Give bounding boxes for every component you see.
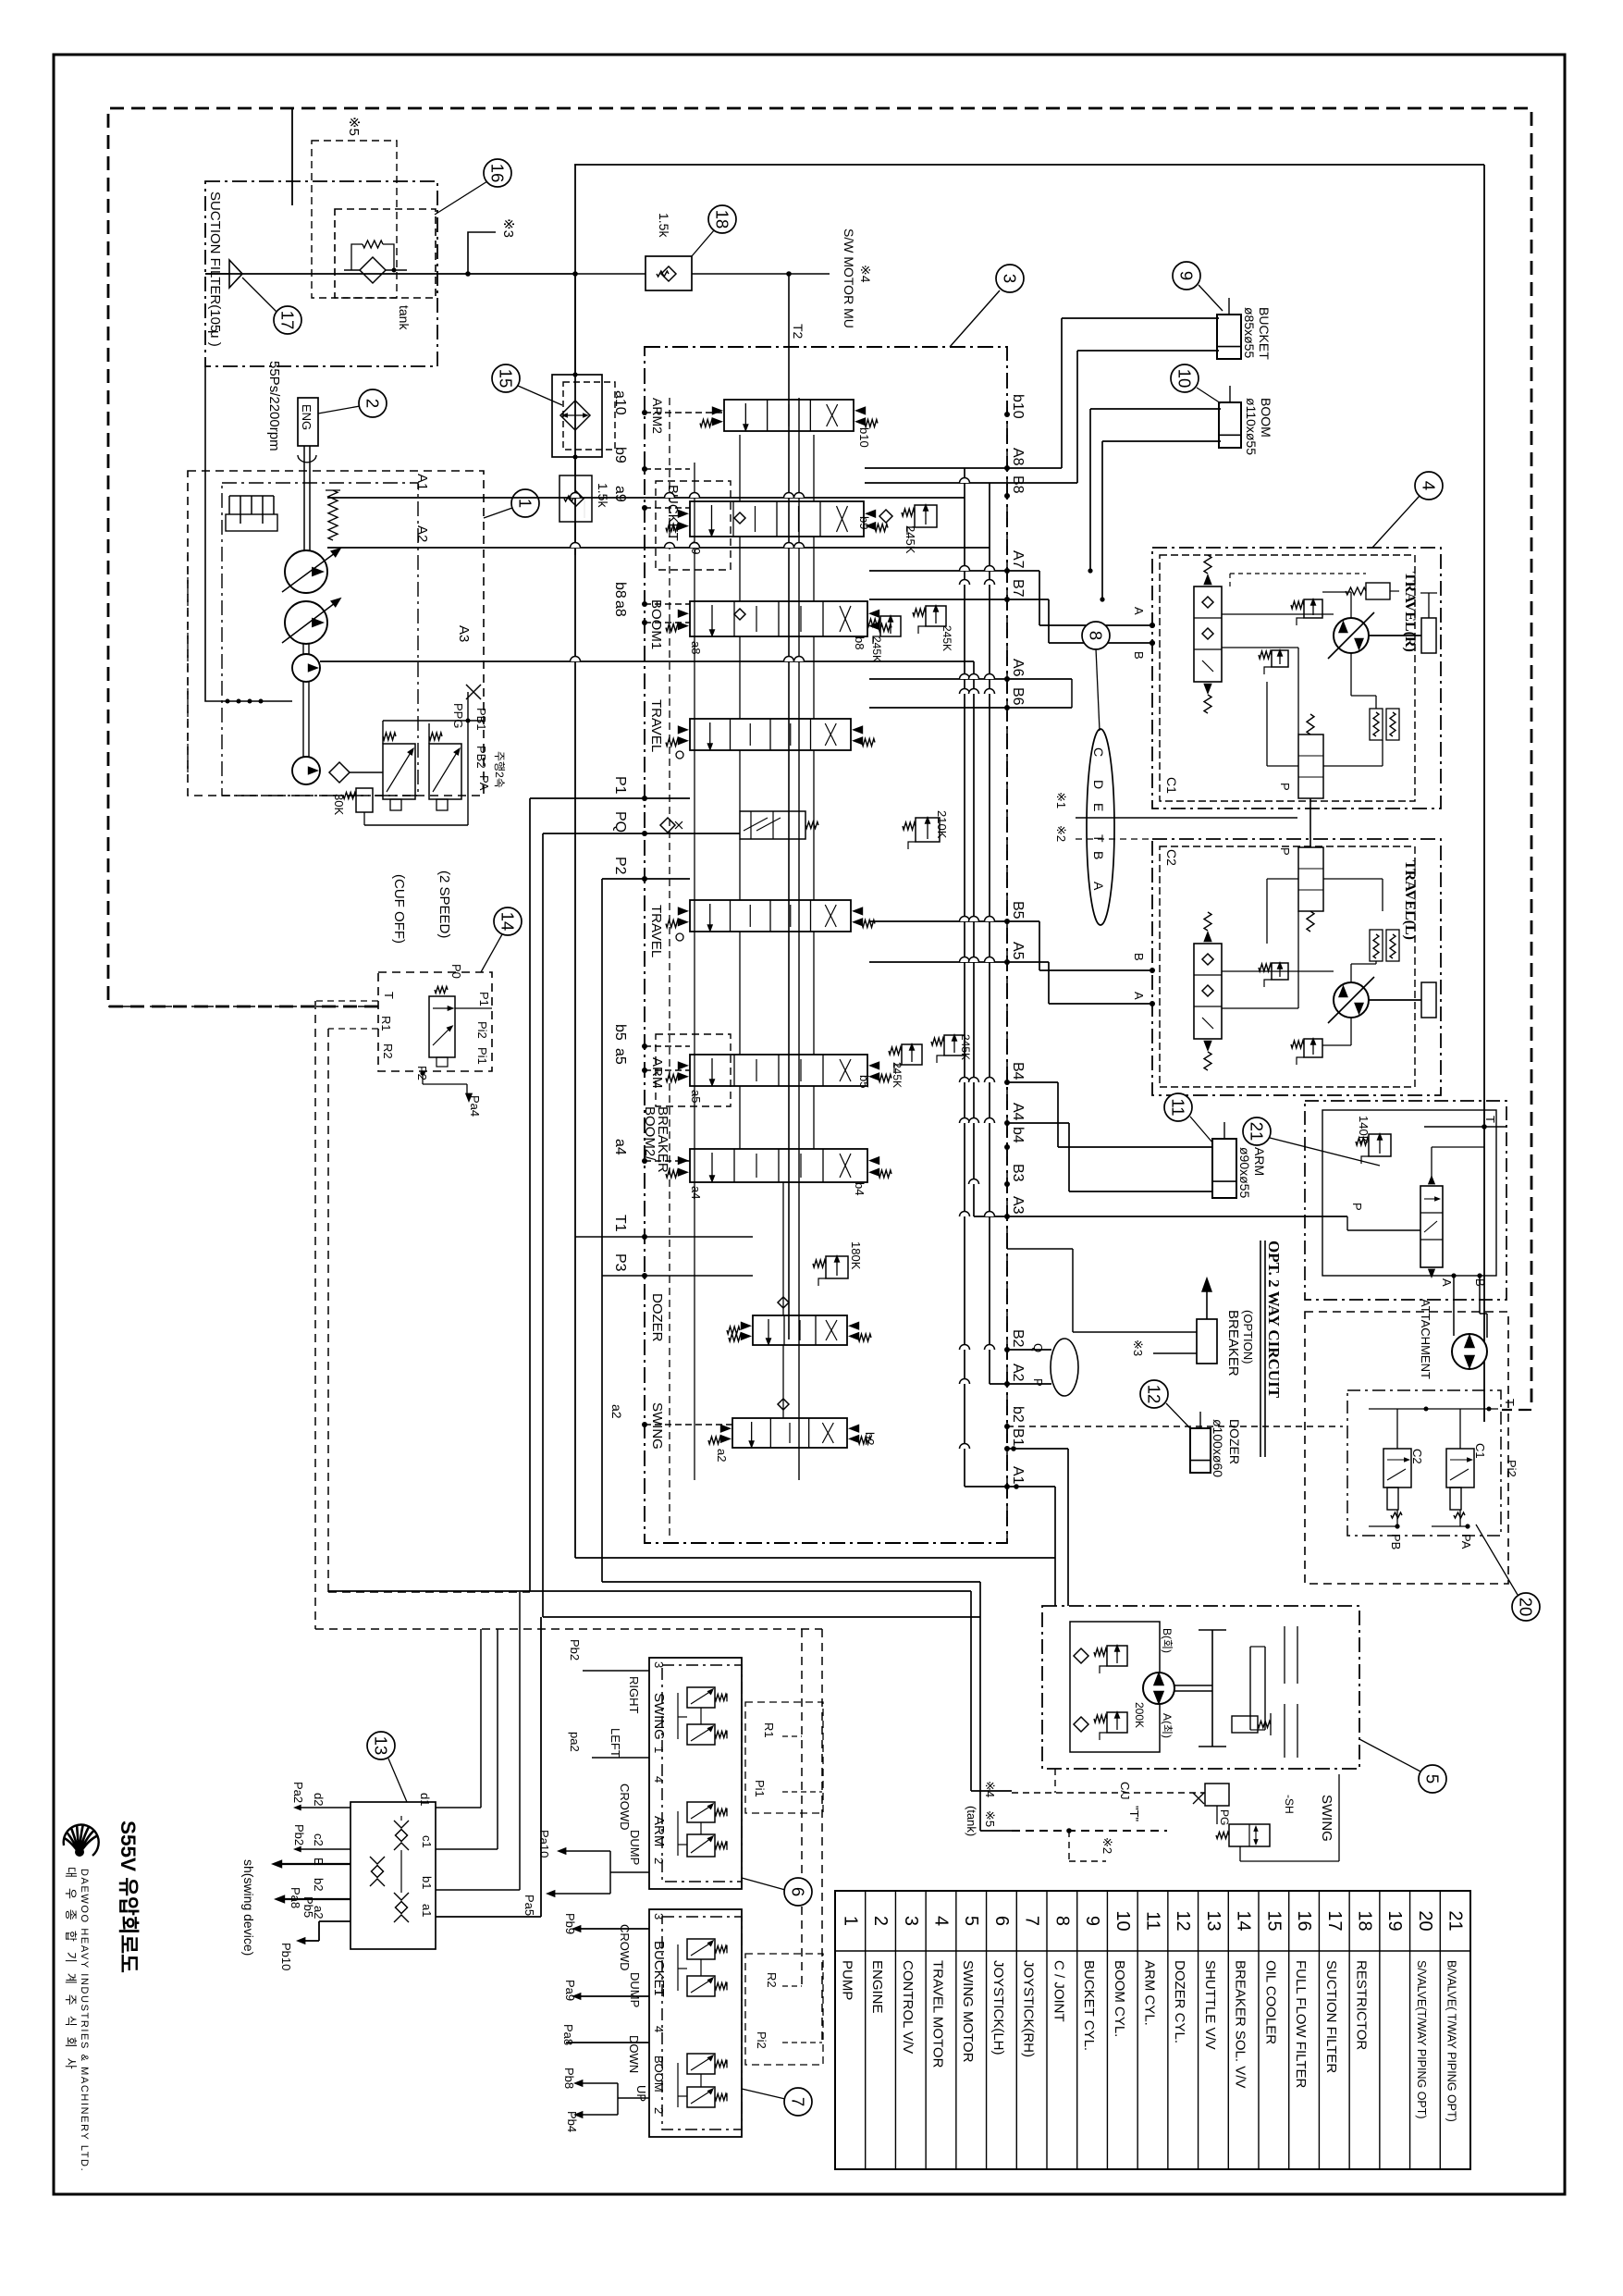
bus vertical 1053 bbox=[973, 661, 975, 1216]
circle 4 bbox=[1415, 472, 1443, 500]
svg-text:DOZER: DOZER bbox=[1227, 1419, 1242, 1464]
Pb8 Pb4 tee bbox=[618, 2097, 649, 2099]
svg-text:B3: B3 bbox=[1010, 1164, 1026, 1182]
travel L motor bbox=[1334, 982, 1369, 1018]
valve spool BUCKET bbox=[656, 481, 731, 570]
valve spool SWING bbox=[732, 1418, 847, 1448]
svg-text:180K: 180K bbox=[849, 1241, 863, 1270]
svg-text:B1: B1 bbox=[1010, 1428, 1026, 1447]
svg-text:A3: A3 bbox=[1010, 1196, 1026, 1215]
travel R internal wires bbox=[1222, 613, 1334, 615]
30K relief valve bbox=[356, 788, 373, 812]
svg-text:TRAVEL MOTOR: TRAVEL MOTOR bbox=[930, 1960, 946, 2068]
svg-text:A3: A3 bbox=[456, 625, 472, 642]
svg-text:OIL COOLER: OIL COOLER bbox=[1262, 1960, 1278, 2044]
svg-text:LEFT: LEFT bbox=[609, 1728, 622, 1758]
svg-text:※4: ※4 bbox=[858, 265, 873, 283]
svg-text:b4: b4 bbox=[853, 1182, 867, 1195]
svg-text:A4: A4 bbox=[1010, 1103, 1026, 1121]
svg-text:C1: C1 bbox=[1473, 1443, 1487, 1459]
svg-text:A1: A1 bbox=[414, 474, 430, 490]
bottom horizontal runs bbox=[575, 1557, 1055, 1559]
c-joint block 13 box bbox=[350, 1802, 436, 1949]
svg-text:DOZER CYL.: DOZER CYL. bbox=[1172, 1960, 1187, 2043]
attachment motor bbox=[1452, 1334, 1487, 1369]
wire A1 bbox=[327, 497, 965, 499]
svg-text:B5: B5 bbox=[1010, 901, 1026, 920]
travel L inner dashed box C2 bbox=[1160, 846, 1415, 1087]
wire A3 bbox=[320, 660, 974, 662]
svg-text:Pb2: Pb2 bbox=[292, 1824, 306, 1845]
travel L brake bbox=[1421, 982, 1436, 1018]
svg-text:-SH: -SH bbox=[1283, 1795, 1296, 1814]
svg-text:C2: C2 bbox=[1164, 849, 1179, 866]
svg-text:TRAVEL(R): TRAVEL(R) bbox=[1402, 572, 1418, 652]
svg-text:※2: ※2 bbox=[1054, 825, 1068, 842]
svg-text:BOOM: BOOM bbox=[652, 2055, 666, 2092]
1.5k check restrictor bbox=[559, 475, 592, 522]
svg-text:(2 SPEED): (2 SPEED) bbox=[436, 870, 452, 938]
arm cylinder bbox=[1212, 1139, 1236, 1198]
svg-text:30K: 30K bbox=[332, 794, 346, 815]
oil cooler / filter 15 box bbox=[552, 375, 602, 457]
svg-text:주행2속: 주행2속 bbox=[493, 751, 507, 788]
svg-text:16: 16 bbox=[488, 164, 508, 183]
jr R2 Pi2 bbox=[745, 1954, 823, 2065]
svg-text:12: 12 bbox=[1173, 1910, 1193, 1931]
svg-text:※2: ※2 bbox=[1100, 1837, 1114, 1854]
svg-text:RIGHT: RIGHT bbox=[627, 1676, 641, 1714]
arm 245K reliefs bbox=[902, 1044, 922, 1065]
circle 15 bbox=[492, 364, 520, 392]
svg-text:UP: UP bbox=[634, 2085, 648, 2102]
svg-text:11: 11 bbox=[1169, 1098, 1188, 1116]
svg-text:R2: R2 bbox=[765, 1972, 779, 1988]
svg-text:ENG: ENG bbox=[300, 404, 314, 430]
opt 2 way circuit title bbox=[1260, 1241, 1261, 1457]
svg-text:16: 16 bbox=[1294, 1910, 1314, 1931]
svg-text:BOOM: BOOM bbox=[1259, 398, 1273, 438]
svg-text:b8: b8 bbox=[612, 582, 628, 599]
svg-text:3: 3 bbox=[1001, 274, 1020, 283]
b/valve 4way valve bbox=[1420, 1186, 1443, 1267]
wire B8 to bucket cylinder bbox=[865, 482, 1077, 484]
wire B1 bbox=[1007, 1448, 1068, 1450]
boom cylinder bbox=[1219, 402, 1241, 448]
svg-text:PA: PA bbox=[1459, 1534, 1473, 1549]
svg-text:S/W MOTOR MU: S/W MOTOR MU bbox=[842, 228, 856, 328]
bucket 245K relief bbox=[915, 505, 937, 527]
svg-text:1: 1 bbox=[652, 1989, 666, 1995]
svg-text:A2: A2 bbox=[414, 525, 430, 542]
vertical cooler line bbox=[574, 274, 576, 375]
svg-text:BREAKER SOL. V/V: BREAKER SOL. V/V bbox=[1233, 1960, 1248, 2088]
svg-text:10: 10 bbox=[1175, 369, 1195, 389]
SH valve bbox=[1229, 1824, 1270, 1846]
circle 18 bbox=[708, 205, 736, 233]
quick coupler oval CDETBA bbox=[1087, 729, 1114, 925]
svg-text:14: 14 bbox=[1234, 1910, 1254, 1931]
control valve block 3 dash-dot box bbox=[645, 347, 1007, 1543]
wire B7 to travel R bbox=[1048, 599, 1050, 643]
breaker feed wire bbox=[1073, 1331, 1197, 1333]
circle 8 bbox=[1082, 622, 1110, 649]
pump suction manifold bbox=[205, 366, 292, 701]
svg-text:4: 4 bbox=[652, 1776, 666, 1783]
travel R block dash-dot box bbox=[1152, 548, 1441, 809]
svg-text:(tank): (tank) bbox=[965, 1806, 978, 1836]
svg-text:A2: A2 bbox=[1010, 1364, 1026, 1382]
svg-text:S/VALVE(T/WAY PIPING OPT): S/VALVE(T/WAY PIPING OPT) bbox=[1415, 1960, 1428, 2119]
wire A4 arm cyl bbox=[1007, 1122, 1069, 1124]
svg-text:245K: 245K bbox=[870, 636, 883, 662]
svg-text:※1: ※1 bbox=[1054, 792, 1068, 809]
svg-text:BOOM1: BOOM1 bbox=[648, 599, 664, 649]
svg-text:3: 3 bbox=[652, 1913, 666, 1920]
svg-text:※4: ※4 bbox=[983, 1781, 997, 1797]
svg-text:P: P bbox=[1031, 1378, 1045, 1387]
svg-text:Pa5: Pa5 bbox=[523, 1895, 536, 1916]
svg-text:3: 3 bbox=[652, 1661, 666, 1668]
svg-text:A: A bbox=[1440, 1278, 1454, 1287]
svg-text:T: T bbox=[1503, 1399, 1517, 1406]
wire travel pilot dashed bbox=[1076, 838, 1152, 840]
circle 1 bbox=[511, 489, 539, 517]
svg-text:SWING: SWING bbox=[651, 1693, 667, 1740]
travel L small reliefs bbox=[1304, 1039, 1322, 1057]
svg-text:21: 21 bbox=[1248, 1122, 1267, 1142]
svg-text:A: A bbox=[1091, 882, 1106, 891]
circle 16 bbox=[484, 159, 511, 187]
svg-text:1: 1 bbox=[840, 1916, 860, 1926]
svg-text:PPG: PPG bbox=[451, 703, 465, 728]
travel R motor bbox=[1334, 618, 1369, 653]
140K relief bbox=[1369, 1134, 1391, 1156]
travel P interconnect bbox=[1309, 798, 1311, 847]
svg-text:245K: 245K bbox=[941, 625, 953, 651]
svg-text:B: B bbox=[1132, 953, 1146, 961]
main suction line bbox=[205, 273, 574, 275]
regulator spring bbox=[328, 490, 338, 540]
swing relief B bbox=[1107, 1646, 1127, 1666]
svg-text:B7: B7 bbox=[1010, 579, 1026, 598]
svg-text:※3: ※3 bbox=[500, 218, 516, 238]
svg-text:BUCKET CYL.: BUCKET CYL. bbox=[1081, 1960, 1097, 2051]
sw motor line bbox=[575, 273, 646, 275]
wire A2 bbox=[327, 547, 990, 549]
wire B2 to QP oval bbox=[1007, 1349, 1051, 1351]
svg-text:21: 21 bbox=[1445, 1910, 1466, 1931]
svg-text:C2: C2 bbox=[1410, 1449, 1424, 1464]
svg-text:210K: 210K bbox=[935, 810, 949, 839]
valve spool TRAVEL-2 bbox=[690, 900, 851, 932]
svg-text:SUCTION FILTER: SUCTION FILTER bbox=[1323, 1960, 1339, 2073]
svg-text:A(최): A(최) bbox=[1161, 1713, 1174, 1738]
svg-text:Pa8: Pa8 bbox=[289, 1887, 302, 1908]
svg-text:4: 4 bbox=[931, 1916, 952, 1926]
suction filter box 17 bbox=[205, 181, 437, 366]
note *3 elbow bbox=[468, 232, 496, 274]
svg-text:b8: b8 bbox=[853, 636, 867, 649]
svg-text:19: 19 bbox=[1384, 1910, 1405, 1931]
full-flow filter check valve bbox=[360, 257, 386, 283]
jl valve arm dump bbox=[687, 1834, 715, 1857]
svg-text:A8: A8 bbox=[1010, 448, 1026, 466]
svg-text:7: 7 bbox=[789, 2097, 808, 2106]
svg-text:A: A bbox=[1132, 607, 1146, 615]
trunk verticals to bottom bbox=[529, 798, 531, 1591]
svg-text:PG: PG bbox=[1218, 1809, 1231, 1825]
svg-text:SWING: SWING bbox=[1319, 1795, 1334, 1842]
svg-text:1.5k: 1.5k bbox=[596, 483, 610, 508]
pump block internal wires bbox=[383, 720, 484, 722]
cjoint left wires bbox=[301, 1807, 350, 1808]
circle 11 bbox=[1164, 1093, 1192, 1121]
svg-text:6: 6 bbox=[991, 1916, 1012, 1926]
svg-text:JOYSTICK(RH): JOYSTICK(RH) bbox=[1021, 1960, 1037, 2057]
T2 line down bbox=[788, 274, 790, 1339]
svg-text:P3: P3 bbox=[612, 1253, 628, 1272]
svg-text:D: D bbox=[1091, 780, 1106, 789]
travel R parking release bbox=[1366, 583, 1390, 599]
circle 10 bbox=[1171, 364, 1199, 392]
svg-text:1: 1 bbox=[652, 1747, 666, 1753]
svg-text:1: 1 bbox=[516, 499, 535, 508]
svg-text:대우종합기계주식회사: 대우종합기계주식회사 bbox=[64, 1867, 78, 2080]
svg-text:Pi2: Pi2 bbox=[475, 1021, 489, 1039]
circle 13 bbox=[367, 1732, 395, 1759]
svg-text:B(회): B(회) bbox=[1161, 1628, 1174, 1653]
svg-text:b5: b5 bbox=[857, 1075, 871, 1088]
svg-text:b4: b4 bbox=[1010, 1127, 1026, 1143]
svg-text:A5: A5 bbox=[1010, 942, 1026, 960]
wire A3 to opt 2way bbox=[974, 1216, 1347, 1217]
svg-text:ø85xø55: ø85xø55 bbox=[1242, 307, 1257, 358]
svg-text:18: 18 bbox=[713, 210, 732, 229]
svg-text:B: B bbox=[1132, 651, 1146, 660]
note *5 box bbox=[312, 141, 397, 298]
svg-text:55Ps/2200rpm: 55Ps/2200rpm bbox=[266, 361, 282, 451]
svg-text:B2: B2 bbox=[1010, 1329, 1026, 1348]
svg-text:Pa8: Pa8 bbox=[561, 2024, 575, 2045]
svg-text:13: 13 bbox=[372, 1736, 391, 1756]
shuttle valve symbol bbox=[429, 996, 455, 1057]
svg-text:13: 13 bbox=[1203, 1910, 1223, 1931]
svg-text:DUMP: DUMP bbox=[628, 1830, 642, 1865]
shuttle block 14 dashed box bbox=[378, 972, 492, 1071]
svg-text:PUMP: PUMP bbox=[839, 1960, 855, 2000]
svg-text:ø90xø55: ø90xø55 bbox=[1237, 1147, 1252, 1198]
svg-text:A7: A7 bbox=[1010, 550, 1026, 569]
cjoint shuttle symbols bbox=[394, 1821, 409, 1828]
travel R control valve bbox=[1194, 586, 1222, 682]
jl valve swing left bbox=[687, 1724, 715, 1745]
svg-text:ATTACHMENT: ATTACHMENT bbox=[1419, 1299, 1432, 1379]
engine shaft bbox=[303, 446, 305, 553]
210K relief bbox=[916, 818, 940, 842]
circle 20 bbox=[1512, 1593, 1540, 1621]
parts list table bbox=[835, 1891, 1470, 2169]
travel L counterbalance springs bbox=[1370, 930, 1383, 961]
svg-text:Pb8: Pb8 bbox=[562, 2068, 576, 2089]
svg-text:a4: a4 bbox=[612, 1139, 628, 1155]
jl valve swing right bbox=[687, 1687, 715, 1708]
jl valve arm crowd bbox=[687, 1802, 715, 1822]
svg-text:b9: b9 bbox=[612, 447, 628, 463]
big dash right tail bbox=[1502, 1409, 1531, 1411]
svg-text:(CUF OFF): (CUF OFF) bbox=[391, 874, 407, 944]
block14 to dashed link bbox=[108, 1006, 378, 1007]
svg-text:245K: 245K bbox=[904, 525, 917, 554]
tank return trunk bbox=[574, 165, 576, 1558]
circle 5 bbox=[1419, 1765, 1446, 1793]
joystick RH block 7 box bbox=[649, 1909, 742, 2137]
svg-text:Pb4: Pb4 bbox=[565, 2111, 579, 2132]
tank box 16 dashed bbox=[335, 209, 436, 298]
swing check valves bbox=[1074, 1648, 1088, 1663]
svg-text:C1: C1 bbox=[1164, 777, 1179, 794]
svg-text:Q: Q bbox=[1031, 1343, 1045, 1352]
crossing jump arcs bbox=[960, 478, 970, 484]
solenoid C1 bbox=[1446, 1449, 1474, 1487]
svg-text:Pa10: Pa10 bbox=[537, 1830, 551, 1858]
wire b2 dashed bbox=[1007, 1426, 1343, 1427]
pump block 1 dashed box bbox=[188, 471, 484, 796]
svg-text:140K: 140K bbox=[1357, 1116, 1371, 1144]
travel L P-valve bbox=[1298, 847, 1323, 911]
filter diamond with arrows bbox=[560, 401, 590, 430]
svg-text:12: 12 bbox=[1145, 1385, 1164, 1404]
svg-text:4: 4 bbox=[1420, 481, 1439, 490]
travel R small reliefs bbox=[1304, 599, 1322, 618]
180K relief bbox=[826, 1256, 848, 1278]
svg-text:a8: a8 bbox=[689, 641, 703, 654]
svg-text:P1: P1 bbox=[477, 992, 491, 1006]
circle 21 bbox=[1243, 1117, 1271, 1145]
jr port wires bbox=[581, 1928, 649, 1930]
svg-text:S55V 유압회로도: S55V 유압회로도 bbox=[117, 1821, 140, 1973]
svg-text:A1: A1 bbox=[1010, 1466, 1026, 1485]
circle 7 bbox=[784, 2088, 812, 2116]
travel R brake bbox=[1421, 618, 1436, 653]
svg-text:ARM2: ARM2 bbox=[650, 398, 665, 434]
svg-text:sh(swing device): sh(swing device) bbox=[241, 1859, 256, 1956]
svg-text:245K: 245K bbox=[891, 1062, 904, 1088]
cjoint right wires bbox=[436, 1807, 481, 1808]
valve spool TRAVEL-1 bbox=[690, 719, 851, 750]
svg-text:3: 3 bbox=[901, 1916, 921, 1926]
svg-text:※5: ※5 bbox=[346, 117, 362, 136]
svg-text:Pb2: Pb2 bbox=[568, 1639, 582, 1660]
pq pilot valve bbox=[740, 811, 805, 839]
svg-text:PB2: PB2 bbox=[474, 746, 488, 769]
svg-text:b10: b10 bbox=[857, 427, 871, 448]
svg-text:2: 2 bbox=[652, 1858, 666, 1864]
svg-text:T2: T2 bbox=[791, 324, 805, 339]
svg-text:b5: b5 bbox=[612, 1024, 628, 1041]
swing relief A bbox=[1107, 1712, 1127, 1733]
svg-text:d2: d2 bbox=[312, 1793, 326, 1806]
circle 12 bbox=[1140, 1380, 1168, 1408]
svg-text:7: 7 bbox=[1022, 1916, 1042, 1926]
s/valve block 20 outer dashed bbox=[1305, 1312, 1508, 1584]
svg-text:9: 9 bbox=[1082, 1916, 1102, 1926]
svg-text:TRAVEL: TRAVEL bbox=[648, 905, 664, 957]
circle 14 bbox=[494, 907, 522, 935]
s/valve wires bbox=[1369, 1408, 1498, 1410]
PG valve bbox=[1205, 1784, 1229, 1806]
swing motor bbox=[1143, 1673, 1174, 1704]
svg-text:a1: a1 bbox=[420, 1904, 434, 1917]
swing brake cylinder bbox=[1232, 1716, 1258, 1733]
svg-text:C / JOINT: C / JOINT bbox=[1051, 1960, 1066, 2022]
jr valve bucket dump bbox=[687, 1976, 715, 1996]
wire B5 to travel L bbox=[869, 920, 1039, 922]
sh swing device arrow bbox=[281, 1863, 350, 1865]
svg-text:R1: R1 bbox=[762, 1722, 776, 1738]
svg-text:245K: 245K bbox=[959, 1034, 972, 1060]
svg-text:P: P bbox=[1278, 783, 1292, 791]
svg-text:"T": "T" bbox=[1127, 1806, 1141, 1822]
svg-text:a5: a5 bbox=[612, 1048, 628, 1065]
valve spool BOOM1 bbox=[690, 601, 867, 636]
wire A8 to bucket cylinder bbox=[865, 467, 1062, 469]
svg-text:DOZER: DOZER bbox=[649, 1293, 665, 1342]
svg-text:a2: a2 bbox=[715, 1449, 729, 1462]
valve spool ARM2 bbox=[724, 400, 854, 431]
valve spool ARM bbox=[690, 1055, 867, 1086]
svg-text:9: 9 bbox=[1177, 271, 1197, 280]
travel R inner dashed box C1 bbox=[1160, 555, 1415, 801]
svg-text:T1: T1 bbox=[612, 1215, 628, 1232]
daewoo logo bbox=[64, 1824, 97, 1854]
svg-text:(OPTION): (OPTION) bbox=[1241, 1310, 1255, 1364]
svg-text:d1: d1 bbox=[418, 1793, 432, 1806]
svg-text:2: 2 bbox=[652, 2107, 666, 2114]
svg-text:4: 4 bbox=[652, 2026, 666, 2032]
svg-text:a4: a4 bbox=[689, 1186, 703, 1199]
s/valve inner dash-dot bbox=[1347, 1390, 1501, 1536]
jl R1 Pi1 bbox=[745, 1702, 823, 1813]
svg-text:DOWN: DOWN bbox=[627, 2035, 641, 2073]
svg-text:Pi1: Pi1 bbox=[475, 1047, 489, 1065]
svg-text:a8: a8 bbox=[612, 600, 628, 617]
svg-text:b2: b2 bbox=[863, 1432, 877, 1445]
svg-text:15: 15 bbox=[1263, 1910, 1284, 1931]
jr valve bucket crowd bbox=[687, 1939, 715, 1959]
svg-text:Pb10: Pb10 bbox=[279, 1943, 293, 1970]
svg-text:2: 2 bbox=[363, 399, 383, 408]
svg-text:CONTROL V/V: CONTROL V/V bbox=[900, 1960, 916, 2054]
restrictor 18 box bbox=[646, 256, 692, 290]
svg-text:b1: b1 bbox=[420, 1876, 434, 1889]
svg-text:Pa9: Pa9 bbox=[563, 1980, 577, 2001]
svg-text:10: 10 bbox=[1113, 1910, 1133, 1931]
circle 3 bbox=[996, 265, 1024, 292]
svg-text:SUCTION FILTER(105: SUCTION FILTER(105 bbox=[207, 191, 223, 332]
svg-text:PB1: PB1 bbox=[474, 708, 488, 731]
PPG test point bbox=[466, 685, 481, 699]
travel R P-valve bbox=[1298, 734, 1323, 798]
travel L internal wires bbox=[1222, 970, 1334, 972]
engine ENG box bbox=[298, 398, 318, 446]
main piston pump P1 bbox=[285, 550, 327, 593]
svg-text:T: T bbox=[1483, 1116, 1497, 1123]
svg-text:b2: b2 bbox=[312, 1878, 326, 1891]
svg-text:A6: A6 bbox=[1010, 659, 1026, 677]
dozer cylinder bbox=[1190, 1428, 1211, 1473]
svg-text:20: 20 bbox=[1415, 1910, 1435, 1931]
